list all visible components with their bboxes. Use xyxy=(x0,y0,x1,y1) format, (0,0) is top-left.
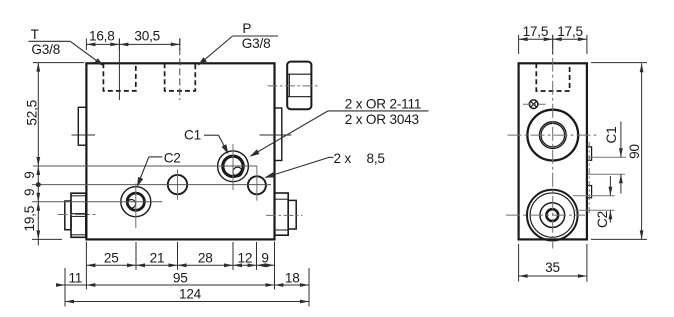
svg-text:9: 9 xyxy=(261,251,268,266)
side view body xyxy=(519,63,587,239)
svg-text:95: 95 xyxy=(173,270,188,285)
hex plug fitting xyxy=(287,62,311,110)
svg-text:P: P xyxy=(242,21,251,36)
bottom extension xyxy=(32,238,62,240)
svg-text:8,5: 8,5 xyxy=(367,151,385,166)
side big circle centerline xyxy=(508,134,599,136)
svg-text:30,5: 30,5 xyxy=(134,28,160,43)
dims 9 9 19,5 xyxy=(36,166,40,175)
hole 8,5 right xyxy=(248,176,266,194)
svg-text:12: 12 xyxy=(238,251,253,266)
T port dashed square xyxy=(103,63,135,91)
centerline row C2 xyxy=(32,201,162,203)
svg-text:17,5: 17,5 xyxy=(523,24,549,39)
svg-text:C2: C2 xyxy=(164,151,181,166)
svg-text:G3/8: G3/8 xyxy=(242,36,271,51)
right O-ring tab xyxy=(275,108,282,161)
right nut xyxy=(275,193,289,235)
side big circle xyxy=(527,110,578,161)
dim 35 xyxy=(518,244,520,282)
centerline row holes xyxy=(32,184,271,186)
side vertical centerline xyxy=(552,35,554,249)
left tab centerline tick xyxy=(72,134,96,136)
svg-text:2 x OR 3043: 2 x OR 3043 xyxy=(345,112,419,127)
dim row 25 21 28 12 9 xyxy=(86,264,274,266)
centerline row C1 xyxy=(33,165,257,167)
dim 52,5 xyxy=(33,62,84,64)
left nut centerline xyxy=(58,214,96,216)
P port dashed square xyxy=(165,63,196,91)
svg-text:2 x OR 2-111: 2 x OR 2-111 xyxy=(345,97,421,112)
svg-text:16,8: 16,8 xyxy=(89,28,115,43)
svg-text:C1: C1 xyxy=(184,128,201,143)
svg-text:25: 25 xyxy=(104,251,119,266)
svg-text:28: 28 xyxy=(198,251,213,266)
svg-text:18: 18 xyxy=(285,270,300,285)
svg-text:21: 21 xyxy=(150,251,165,266)
svg-text:T: T xyxy=(31,27,39,42)
svg-text:52,5: 52,5 xyxy=(25,100,40,126)
hole 8,5 left xyxy=(168,175,187,194)
port C1 circle xyxy=(218,151,249,182)
dim row 11 95 18 xyxy=(57,284,309,286)
svg-text:C1: C1 xyxy=(604,127,619,144)
svg-text:17,5: 17,5 xyxy=(557,24,583,39)
svg-text:35: 35 xyxy=(545,260,560,275)
main view body xyxy=(86,63,274,239)
svg-text:124: 124 xyxy=(179,287,202,302)
svg-text:C2: C2 xyxy=(595,211,610,228)
port C2 circle xyxy=(121,187,151,217)
svg-text:G3/8: G3/8 xyxy=(31,42,60,57)
dim 124 xyxy=(65,301,309,303)
right tab centerline tick xyxy=(260,134,292,136)
dim C1 side xyxy=(620,122,622,158)
right nut centerline xyxy=(266,214,303,216)
side lower plug circles xyxy=(527,190,578,241)
svg-text:9: 9 xyxy=(22,189,37,196)
side lower centerline xyxy=(506,214,585,216)
extension lines C1 C2 ports xyxy=(588,156,626,158)
T port centerline xyxy=(118,38,120,100)
hex plug centerline xyxy=(268,85,318,87)
dim 90 xyxy=(591,62,647,64)
svg-text:2 x: 2 x xyxy=(334,151,352,166)
svg-text:90: 90 xyxy=(627,144,642,159)
P port centerline xyxy=(179,38,181,100)
dim C2 side xyxy=(609,176,611,196)
left O-ring tab xyxy=(78,107,86,145)
dim 17,5 17,5 xyxy=(519,38,587,40)
svg-text:19,5: 19,5 xyxy=(22,206,37,232)
side screw circle xyxy=(529,100,538,109)
svg-text:11: 11 xyxy=(68,270,82,285)
dim 16,8 and 30,5 xyxy=(86,43,179,45)
left nut xyxy=(71,193,86,237)
svg-text:9: 9 xyxy=(22,171,37,178)
side port dashed square xyxy=(536,63,569,91)
side right port tabs xyxy=(587,147,592,161)
